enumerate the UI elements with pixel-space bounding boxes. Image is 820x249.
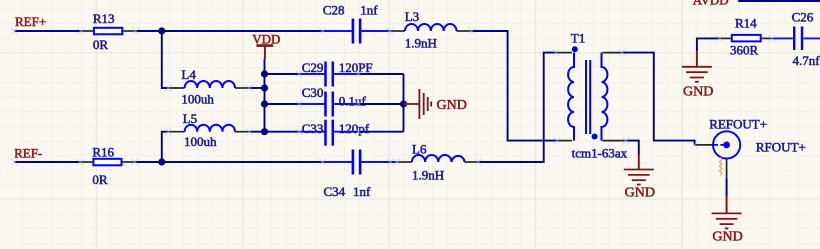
svg-text:100uh: 100uh — [181, 91, 214, 106]
resistor R13 — [94, 28, 122, 35]
node junction REF+ — [158, 27, 165, 34]
capacitor C28 pins — [322, 30, 389, 32]
svg-text:360R: 360R — [730, 42, 759, 57]
svg-text:GND: GND — [712, 229, 742, 244]
svg-text:1nf: 1nf — [353, 184, 371, 199]
svg-text:L4: L4 — [181, 67, 196, 82]
inductor L3 pins — [390, 30, 472, 32]
svg-text:T1: T1 — [571, 31, 585, 46]
capacitor C33 — [326, 120, 333, 146]
inductor L5 — [185, 125, 235, 132]
resistor R14 — [732, 35, 761, 42]
wire left bus vertical — [264, 74, 266, 132]
wire R14 row left — [697, 38, 720, 51]
wire R13 to C28 — [136, 30, 323, 32]
wire junction REF- up to L5 — [162, 132, 168, 162]
svg-text:tcm1-63ax: tcm1-63ax — [572, 146, 628, 161]
capacitor C28 — [353, 19, 360, 44]
svg-text:4.7nf: 4.7nf — [793, 53, 820, 68]
capacitor C33 pins — [299, 131, 359, 133]
inductor L4 — [185, 81, 235, 88]
wire connector to ground — [726, 178, 728, 197]
svg-text:GND: GND — [625, 185, 655, 200]
wire C30 to right bus — [359, 103, 404, 105]
wire T1 top-right to REFOUT — [622, 53, 695, 145]
svg-text:C29: C29 — [302, 60, 324, 75]
svg-text:1.9nH: 1.9nH — [412, 167, 444, 182]
svg-text:0.1uf: 0.1uf — [339, 93, 367, 108]
svg-text:R16: R16 — [92, 145, 114, 160]
ground GND bottom right — [726, 197, 728, 214]
wire junction down to L4 — [162, 31, 168, 88]
capacitor C29 pins — [299, 73, 359, 75]
wire right bus vertical — [403, 74, 405, 132]
svg-text:C26: C26 — [792, 10, 814, 25]
svg-text:AVDD: AVDD — [693, 0, 729, 8]
svg-text:C30: C30 — [302, 85, 324, 100]
capacitor C30 — [326, 92, 333, 117]
power VDD — [252, 32, 280, 60]
wire AVDD top edge — [738, 0, 820, 2]
wire L5 to bus — [250, 131, 265, 133]
inductor L5 pins — [168, 131, 250, 133]
inductor L6 pins — [397, 161, 479, 163]
svg-text:C33: C33 — [302, 121, 324, 136]
node right bus dot — [400, 100, 407, 107]
wire C29 to right bus — [359, 73, 404, 75]
svg-text:120PF: 120PF — [339, 60, 373, 75]
node junction REF- — [158, 158, 165, 165]
pin hotspot markers — [11, 28, 775, 166]
resistor R13 pins — [81, 30, 136, 32]
wire C33 to right bus — [359, 131, 404, 133]
svg-text:120pf: 120pf — [339, 121, 370, 136]
capacitor C34 pins — [322, 161, 390, 163]
svg-text:RFOUT+: RFOUT+ — [756, 140, 806, 155]
wire T1 bottom-right to ground — [626, 141, 639, 155]
ground GND top right — [696, 51, 698, 67]
svg-text:L3: L3 — [405, 9, 419, 24]
wire bus to C29 — [265, 73, 300, 75]
connector REFOUT+ — [713, 131, 740, 158]
svg-text:0R: 0R — [92, 172, 108, 187]
transformer T1 — [568, 53, 607, 141]
node T1 dot top — [572, 46, 578, 52]
transformer T1 pins right — [603, 53, 627, 141]
wire C34 to L6 — [391, 161, 397, 163]
wire R16 to C34 — [135, 161, 323, 163]
connector REFOUT+ pin — [695, 145, 727, 178]
wire VDD to bus — [264, 59, 266, 74]
wire bus to C30 — [265, 103, 300, 105]
wire L3 down to T1 bottom-left pin — [472, 31, 558, 141]
svg-text:L5: L5 — [183, 111, 197, 126]
capacitor C30 pins — [299, 103, 359, 105]
svg-text:0R: 0R — [93, 37, 109, 52]
svg-text:C34: C34 — [324, 184, 346, 199]
no-ERC squiggle — [719, 157, 722, 175]
svg-text:REFOUT+: REFOUT+ — [709, 117, 767, 132]
svg-text:R14: R14 — [735, 16, 757, 31]
inductor L4 pins — [168, 87, 250, 89]
capacitor C26 pins — [772, 37, 820, 39]
resistor R14 pins — [720, 37, 773, 39]
svg-text:REF-: REF- — [14, 146, 42, 161]
svg-text:C28: C28 — [323, 3, 345, 18]
svg-text:1nf: 1nf — [360, 3, 378, 18]
svg-text:GND: GND — [683, 84, 713, 99]
ground GND below T1 — [638, 155, 640, 170]
wire L6 up to T1 top-left pin — [478, 53, 556, 162]
svg-text:1.9nH: 1.9nH — [405, 36, 437, 51]
ground sideways GND — [404, 89, 432, 119]
capacitor C29 — [326, 62, 333, 87]
capacitor C34 — [353, 150, 360, 175]
capacitor C26 — [794, 27, 802, 51]
svg-text:VDD: VDD — [252, 32, 280, 47]
svg-text:L6: L6 — [412, 142, 427, 157]
wire L4 to bus — [250, 87, 265, 89]
wire REF+ to R13 — [15, 30, 81, 32]
node T1 dot bottom — [592, 134, 598, 140]
node bus dots — [261, 70, 268, 77]
resistor R16 pins — [80, 161, 135, 163]
transformer T1 pins left — [556, 53, 572, 141]
svg-text:GND: GND — [437, 98, 467, 113]
resistor R16 — [93, 159, 121, 166]
svg-text:100uh: 100uh — [184, 134, 217, 149]
inductor L6 — [412, 155, 465, 162]
svg-text:R13: R13 — [93, 11, 115, 26]
inductor L3 — [405, 24, 457, 31]
wire bus to C33 — [265, 131, 300, 133]
svg-text:REF+: REF+ — [15, 14, 46, 29]
wire REF- to R16 — [15, 161, 81, 163]
